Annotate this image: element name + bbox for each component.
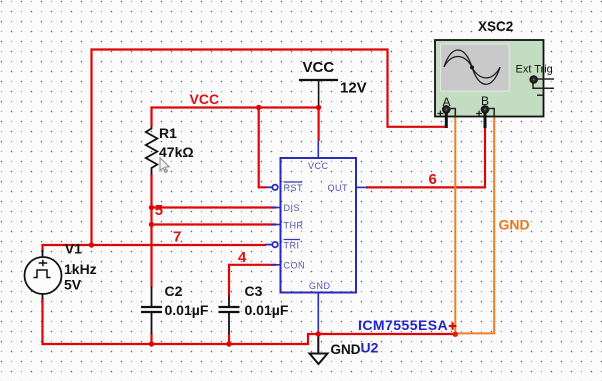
junction node7 (V1/scope A) xyxy=(89,242,94,247)
IC U2 RST bubble xyxy=(265,186,272,188)
marker plus at A- rail junction xyxy=(449,322,457,330)
svg-text:GND: GND xyxy=(499,217,530,233)
svg-text:GND: GND xyxy=(309,281,331,291)
svg-text:VCC: VCC xyxy=(190,91,220,107)
junction ground rail at scope A- xyxy=(453,332,458,337)
junction VCC rail at supply xyxy=(316,105,321,110)
oscilloscope XSC2 body xyxy=(435,40,544,117)
mouse cursor xyxy=(160,158,169,172)
svg-text:Ext Trig: Ext Trig xyxy=(516,64,553,76)
IC U2 RST overline xyxy=(284,181,303,183)
source V1 body xyxy=(25,257,62,294)
wire node5: junction down to C2 top xyxy=(150,225,152,288)
wire VCC rail: R1 top to 12V supply xyxy=(152,108,319,127)
source V1 square-wave glyph xyxy=(34,270,51,278)
oscilloscope trace small xyxy=(444,57,500,78)
oscilloscope Ext Trig pin xyxy=(530,76,537,83)
wire ground rail: V1 minus across the bottom xyxy=(43,298,456,344)
svg-text:XSC2: XSC2 xyxy=(478,19,513,34)
svg-text:CON: CON xyxy=(284,261,306,271)
junction ground rail at C3 xyxy=(226,341,231,346)
wire node6: OUT pin to scope B+ xyxy=(366,127,485,188)
wire scope A- down to ground rail (orange) xyxy=(454,117,456,335)
svg-text:0.01µF: 0.01µF xyxy=(165,302,209,318)
wire scope B- down and across to ground rail (orange) xyxy=(455,117,494,334)
svg-text:A: A xyxy=(443,95,451,109)
wire node7: V1 plus up and across to TRI pin xyxy=(43,245,267,252)
svg-text:5: 5 xyxy=(155,202,163,219)
oscilloscope Ext Trig wiring xyxy=(533,79,554,95)
IC U2 pin leads xyxy=(271,141,369,334)
oscilloscope terminal B minus bracket xyxy=(487,109,494,118)
svg-text:R1: R1 xyxy=(159,125,177,141)
svg-text:VCC: VCC xyxy=(308,161,329,171)
svg-text:OUT: OUT xyxy=(328,183,349,193)
svg-text:ICM7555ESA: ICM7555ESA xyxy=(358,317,448,333)
svg-text:U2: U2 xyxy=(361,340,379,356)
junction ground rail at GND pin xyxy=(316,331,321,336)
source V1 bottom lead xyxy=(42,294,44,300)
oscilloscope trace marker xyxy=(470,65,474,69)
svg-text:C3: C3 xyxy=(245,283,263,299)
capacitor C2 xyxy=(141,287,162,335)
IC U2 pin labels xyxy=(284,161,349,291)
svg-text:1kHz: 1kHz xyxy=(64,261,97,277)
svg-text:4: 4 xyxy=(238,249,247,266)
oscilloscope trace big xyxy=(444,50,500,84)
svg-text:B: B xyxy=(481,94,489,108)
ground symbol triangle xyxy=(310,354,328,365)
svg-text:0.01µF: 0.01µF xyxy=(245,302,289,318)
svg-text:DIS: DIS xyxy=(284,203,301,213)
source V1 plus sign xyxy=(39,260,48,266)
oscilloscope terminal A pin xyxy=(443,106,450,113)
svg-text:THR: THR xyxy=(284,221,304,231)
svg-text:5V: 5V xyxy=(64,277,82,293)
resistor R1 zigzag xyxy=(146,127,158,175)
oscilloscope plus marks xyxy=(438,111,444,117)
wire C3 bottom to ground rail xyxy=(228,333,230,344)
junction node5 at THR xyxy=(149,222,154,227)
wire 12V supply lead down to IC VCC pin xyxy=(318,108,320,142)
wire node4: C3 top up and across to CON pin xyxy=(229,265,276,296)
wire C2 bottom to ground rail xyxy=(150,333,152,344)
svg-text:6: 6 xyxy=(429,171,437,188)
wire node5: R1 bottom to DIS pin xyxy=(152,174,277,208)
svg-text:C2: C2 xyxy=(165,283,183,299)
junction node5 at DIS xyxy=(149,205,154,210)
svg-text:TRI: TRI xyxy=(284,241,300,251)
svg-text:VCC: VCC xyxy=(303,59,335,76)
wire node7: branch from junction up, across top, down to scope A+ xyxy=(92,50,446,246)
svg-text:V1: V1 xyxy=(65,241,82,257)
svg-text:7: 7 xyxy=(173,229,181,246)
IC U2 TRI overline xyxy=(284,239,301,241)
IC U2 TRI bubble xyxy=(265,244,272,246)
capacitor C3 xyxy=(219,296,240,335)
wire VCC to RST pin xyxy=(259,108,266,188)
wire node5: junction down to THR pin xyxy=(152,208,277,225)
junction ground rail at C2 xyxy=(149,341,154,346)
svg-text:12V: 12V xyxy=(340,80,367,97)
junction VCC rail at RST branch xyxy=(256,105,261,110)
oscilloscope terminal B pin xyxy=(482,106,489,113)
svg-text:GND: GND xyxy=(331,342,361,357)
oscilloscope screen xyxy=(441,44,510,91)
power symbol VCC 12V xyxy=(299,80,338,106)
svg-text:RST: RST xyxy=(284,183,304,193)
oscilloscope terminal A minus bracket xyxy=(448,109,455,118)
source V1 top lead xyxy=(42,250,44,258)
IC U2 ICM7555 body xyxy=(281,158,357,293)
ground symbol (near IC) lead xyxy=(317,334,319,354)
svg-text:47kΩ: 47kΩ xyxy=(159,144,194,160)
